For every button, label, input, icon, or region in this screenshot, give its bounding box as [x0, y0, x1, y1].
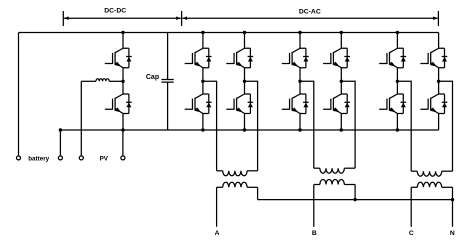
wire T1 to neutral bus [257, 187, 259, 199]
inverter leg 5 wire [396, 33, 398, 131]
transformer T3 upper winding (phase C) [411, 171, 452, 176]
node leg5 midpoint [396, 80, 399, 83]
junction leg5 / top rail [396, 31, 399, 34]
label Cap [146, 74, 159, 81]
node leg6 midpoint [437, 80, 440, 83]
wire T3 to neutral bus [452, 187, 454, 199]
junction leg2 / top rail [243, 31, 246, 34]
wire output A [216, 187, 218, 227]
wire battery- to bottom rail [59, 130, 61, 156]
battery + terminal [17, 156, 21, 160]
wire PV+ to boost inductor [80, 81, 82, 156]
transformer T2 lower winding (phase B) [314, 179, 355, 184]
junction DC-DC leg / bottom rail [121, 128, 124, 131]
IGBT Q9 [323, 48, 350, 68]
IGBT Q7 [282, 48, 309, 68]
IGBT Q11 [379, 48, 406, 68]
wire T2 to neutral bus [354, 185, 356, 200]
boost inductor L1 [81, 79, 123, 82]
junction leg1 / bottom rail [201, 128, 204, 131]
svg-text:B: B [312, 230, 317, 237]
DC-DC leg wire [122, 33, 124, 131]
wire output C [410, 187, 412, 227]
label PV [100, 155, 109, 162]
svg-text:N: N [450, 230, 455, 237]
svg-text:A: A [215, 230, 220, 237]
wire battery+ to top rail [18, 33, 20, 156]
IGBT Q14 [420, 94, 447, 114]
IGBT Q8 [282, 94, 309, 114]
IGBT Q1 (DC-DC top) [105, 48, 132, 68]
transformer T1 upper winding (phase A) [217, 171, 258, 176]
junction leg4 / bottom rail [340, 128, 343, 131]
inverter leg 6 wire [438, 33, 440, 131]
IGBT Q12 [379, 94, 406, 114]
neutral bus [258, 199, 453, 201]
svg-text:C: C [409, 230, 414, 237]
junction DC-DC leg / top rail [121, 31, 124, 34]
label C [409, 230, 414, 237]
junction bottom rail left end [59, 128, 62, 131]
IGBT Q5 [226, 48, 253, 68]
junction leg1 / top rail [201, 31, 204, 34]
label N [450, 230, 455, 237]
dimension DC-DC [63, 8, 181, 26]
node leg2 midpoint [243, 80, 246, 83]
inverter leg 4 wire [340, 33, 342, 131]
junction T3 / neutral bus [451, 198, 454, 201]
IGBT Q13 [420, 48, 447, 68]
junction leg2 / bottom rail [243, 128, 246, 131]
wire leg6 midpoint drop [439, 81, 453, 171]
top DC+ rail [19, 32, 439, 34]
wire PV- to bottom rail [122, 130, 124, 156]
transformer T1 lower winding (phase A) [217, 182, 258, 187]
DC bus capacitor [161, 33, 173, 131]
PV - terminal [121, 156, 125, 160]
bottom DC- rail [60, 129, 438, 131]
IGBT Q2 (DC-DC bottom) [105, 94, 132, 114]
wire output B [313, 185, 315, 227]
svg-text:battery: battery [28, 155, 49, 162]
IGBT Q6 [226, 94, 253, 114]
label A [215, 230, 220, 237]
junction leg4 / top rail [340, 31, 343, 34]
IGBT Q3 [185, 48, 212, 68]
wire output N [452, 200, 454, 227]
wire leg4 midpoint drop [341, 81, 355, 168]
node leg3 midpoint [298, 80, 301, 83]
inverter leg 1 wire [202, 33, 204, 131]
PV + terminal [79, 156, 83, 160]
label battery [28, 155, 49, 162]
junction leg3 / bottom rail [298, 128, 301, 131]
junction leg3 / top rail [298, 31, 301, 34]
node leg1 midpoint [201, 80, 204, 83]
junction T2 / neutral bus [353, 198, 356, 201]
inverter leg 2 wire [244, 33, 246, 131]
junction leg5 / bottom rail [396, 128, 399, 131]
IGBT Q4 [185, 94, 212, 114]
wire leg1 midpoint drop [203, 81, 217, 171]
wire leg5 midpoint drop [397, 81, 411, 171]
svg-text:DC-DC: DC-DC [104, 8, 126, 15]
label B [312, 230, 317, 237]
transformer T2 upper winding (phase B) [314, 168, 355, 173]
transformer T3 lower winding (phase C) [411, 182, 452, 187]
svg-text:DC-AC: DC-AC [299, 9, 321, 16]
wire leg2 midpoint drop [245, 81, 258, 171]
inverter leg 3 wire [299, 33, 301, 131]
wire leg3 midpoint drop [300, 81, 314, 168]
dimension DC-AC [182, 9, 438, 26]
svg-text:Cap: Cap [146, 74, 159, 81]
node DC-DC midpoint [121, 80, 124, 83]
node leg4 midpoint [340, 80, 343, 83]
IGBT Q10 [323, 94, 350, 114]
svg-text:PV: PV [100, 155, 109, 162]
battery - terminal [58, 156, 62, 160]
